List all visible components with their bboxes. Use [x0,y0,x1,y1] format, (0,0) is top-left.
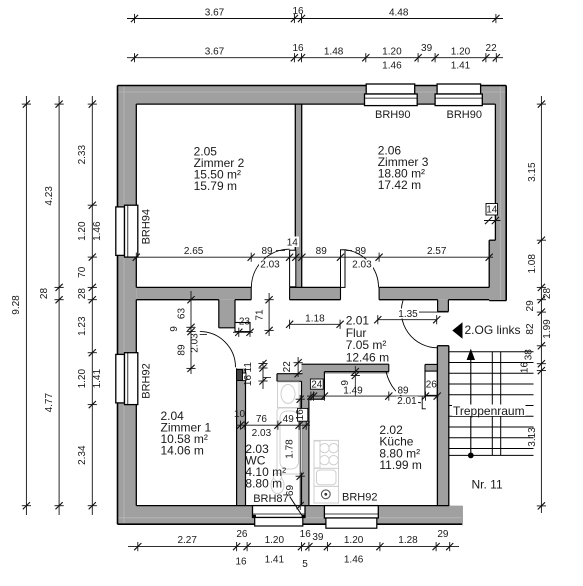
dim 16/11 mini (WC door) [262,361,264,389]
svg-text:1.23: 1.23 [77,316,88,336]
svg-text:28: 28 [39,288,50,300]
door Zimmer2: leaf [290,250,296,287]
door Zimmer3: leaf [341,250,346,288]
wall layer line top [118,91,506,93]
svg-text:1.20: 1.20 [382,47,402,58]
svg-text:BRH87: BRH87 [253,493,288,505]
svg-text:4.77: 4.77 [44,393,55,413]
stub foot white box with 23 dim [235,323,250,332]
dim chain right [540,96,542,513]
outline: stair west wall [436,346,438,506]
outline: stair door stub [437,300,439,312]
wall fill: wall WC/Kueche [302,374,309,506]
svg-text:2.34: 2.34 [77,445,88,465]
svg-text:16: 16 [300,529,312,540]
wall fill: Kueche NW corner block [302,372,325,400]
svg-text:89: 89 [355,246,367,257]
outline: door gap jambs middle wall [250,287,252,299]
svg-text:BRH90: BRH90 [375,109,410,121]
wall fill: left outer wall [118,86,137,525]
stair treads [449,351,534,353]
door Zimmer2: swing arc [251,249,289,287]
outline: middle wall top edge segments [136,286,251,288]
dim chain top inner [127,57,503,59]
svg-text:1.41: 1.41 [265,555,285,566]
dim 22 mini (WC top) [297,357,299,377]
door gap Zimmer2 in middle wall [251,287,289,301]
svg-text:1.20: 1.20 [451,47,471,58]
svg-text:1.20: 1.20 [265,535,285,546]
dim chain left 1 (9.28) [25,96,27,515]
svg-text:29: 29 [437,529,449,540]
svg-text:3.67: 3.67 [205,47,225,58]
svg-text:11.99 m: 11.99 m [379,458,421,472]
window BRH92 bottom wall (kitchen) [324,506,378,518]
wall fill: right wall lower step [489,240,506,300]
outline: kitchen door head piece [425,363,437,365]
svg-text:28: 28 [77,288,88,300]
svg-text:22: 22 [282,361,293,373]
WC bathtub [277,408,302,474]
outline: left wall inner edge lower [135,300,137,506]
window BRH87 leader diagonal [290,497,302,516]
outline: building outer top edge [118,85,507,87]
outline: top wall inner edge [136,103,495,105]
svg-text:26: 26 [426,379,438,390]
wall fill: stub left of stair door [438,300,449,312]
stair stringer lines [491,352,493,456]
svg-text:24: 24 [311,380,323,391]
svg-text:4.23: 4.23 [44,186,55,206]
dim 1.78/69 (kitchen west) [299,395,301,510]
dim chain kitchen top (24/1.49/9/89/2.01/26) [307,395,439,397]
outline: Kueche NW block [323,372,325,400]
kitchen stove unit [314,440,339,468]
svg-text:2.03: 2.03 [352,260,372,271]
svg-text:89: 89 [176,344,187,356]
svg-text:22: 22 [486,43,498,54]
wall layer line right [499,86,501,300]
svg-text:38: 38 [524,349,535,361]
svg-text:16: 16 [235,557,247,568]
svg-text:15.79 m: 15.79 m [194,179,237,193]
svg-text:1.20: 1.20 [344,535,364,546]
svg-text:89: 89 [261,246,273,257]
svg-text:14: 14 [287,237,299,248]
svg-text:5: 5 [302,559,308,570]
svg-text:39: 39 [421,43,433,54]
label Treppenraum [452,405,526,417]
svg-text:2.65: 2.65 [184,246,204,257]
svg-text:71: 71 [254,309,265,321]
svg-text:16: 16 [292,43,304,54]
svg-text:Treppenraum: Treppenraum [453,404,525,418]
svg-text:1.18: 1.18 [305,313,325,324]
svg-text:39: 39 [312,532,324,543]
svg-text:2.27: 2.27 [177,535,197,546]
svg-text:89: 89 [397,386,409,397]
kitchen sink unit [314,468,339,486]
svg-text:2.33: 2.33 [77,145,88,165]
svg-text:1.48: 1.48 [324,47,344,58]
svg-text:14.06 m: 14.06 m [161,444,204,458]
svg-text:16: 16 [520,362,531,374]
svg-text:1.41: 1.41 [451,61,471,72]
svg-text:16: 16 [292,6,304,17]
wall fill: bottom outer wall [118,506,463,525]
svg-text:3.13: 3.13 [527,427,538,447]
svg-text:BRH92: BRH92 [141,363,153,398]
outline: WC top wall [277,373,302,375]
dim 1.35 (stair door) [378,319,437,321]
wall Zimmer1/WC top cap [237,370,243,381]
outline: bottom wall outer edge [118,523,463,525]
dim line rooms row (2.65/89/14/89/89/2.57) [130,256,493,258]
wall fill: kitchen door head piece [425,364,437,371]
svg-text:3.67: 3.67 [205,7,225,18]
dim chain left 3 [91,96,93,515]
dim chain WC (10/76/49/16 + 2.03) [236,424,310,426]
dim 1.18 (Flur) [290,323,341,325]
svg-text:BRH94: BRH94 [141,209,153,244]
svg-text:1.99: 1.99 [542,319,553,339]
svg-text:1.41: 1.41 [92,369,103,389]
window BRH90 #2 top wall [437,84,481,94]
svg-text:1.46: 1.46 [344,555,364,566]
svg-text:16: 16 [295,409,306,421]
door to stairwell: swing arc [401,301,437,348]
svg-text:3.15: 3.15 [527,162,538,182]
wall layer line bottom [118,517,462,519]
svg-text:1.28: 1.28 [398,535,418,546]
dim chain bottom [128,546,459,548]
outline: wall Zimmer1/WC faces [236,368,238,505]
svg-text:9: 9 [169,326,180,332]
svg-text:2.03: 2.03 [190,333,201,353]
door Zimmer3: swing arc [345,250,379,288]
svg-text:2.03: 2.03 [260,260,280,271]
svg-text:1.78: 1.78 [285,439,296,459]
dim 14 (right wall notch) [486,204,498,216]
svg-text:2.03: 2.03 [252,428,272,439]
svg-text:28: 28 [542,288,553,300]
svg-text:1.08: 1.08 [527,254,538,274]
outline: wall WC/Kueche faces [301,381,303,505]
outline: bottom wall right end [461,506,463,525]
svg-text:8.80 m: 8.80 m [245,477,282,491]
outline: building outer right edge [505,86,507,301]
dim 71 (stub height) [268,293,270,336]
wall fill: stub wall south of Zimmer2 [219,300,235,328]
outline: left wall inner edge upper [135,104,137,287]
svg-text:49: 49 [283,414,295,425]
svg-text:1.49: 1.49 [343,386,363,397]
wall fill: middle horizontal wall band [136,287,506,299]
svg-text:17.42 m: 17.42 m [378,178,421,192]
outline: SE corner block bottom [489,300,506,302]
wall fill: right outer wall [495,86,506,301]
outline: bottom wall inner edge segments [136,505,252,507]
wall fill: WC top wall [277,374,302,382]
svg-text:11: 11 [243,362,254,373]
outline: Kueche top wall [302,363,389,365]
door gap Zimmer3 in middle wall [341,287,380,301]
svg-text:1.20: 1.20 [77,221,88,241]
svg-text:63: 63 [176,308,187,320]
svg-text:10: 10 [234,409,246,420]
svg-text:16: 16 [243,375,254,387]
kitchen door niche box 26 [425,371,437,395]
window BRH87 bottom wall [253,506,306,518]
svg-text:9.28: 9.28 [11,295,22,315]
wall fill: stair west wall [437,346,448,506]
door Zimmer1: swing arc [200,332,236,368]
dim 23 (stub foot) [233,331,253,333]
window BRH90 #1 top wall [366,84,415,94]
door Kueche: swing arc [386,372,421,403]
svg-text:82: 82 [525,323,536,335]
wall layer line left [123,86,125,524]
svg-text:2.OG links: 2.OG links [465,323,521,337]
wall fill: Kueche top wall [302,364,389,374]
WC washbasin [278,382,300,408]
window BRH94 left wall [116,207,125,256]
svg-text:76: 76 [256,414,268,425]
wall thickness label 16 (WC/kitchen wall) [298,408,308,421]
svg-text:1.20: 1.20 [77,369,88,389]
dim chain top outer (3.67/16/4.48) [127,18,503,20]
svg-text:26: 26 [236,529,248,540]
door Kueche: leaf mark [422,397,426,409]
svg-text:70: 70 [77,266,88,278]
svg-text:Nr. 11: Nr. 11 [472,478,503,492]
svg-text:12.46 m: 12.46 m [346,351,389,365]
wall fill: wall between Zimmer2 and Zimmer3 [295,104,301,287]
svg-text:BRH92: BRH92 [342,491,377,503]
kitchen lower unit with boiler [314,486,339,503]
svg-text:1.46: 1.46 [382,61,402,72]
dim 63/9/89/2.03 (Zimmer1 door) [190,291,192,374]
svg-text:89: 89 [316,246,328,257]
window BRH92 left wall [116,354,125,403]
svg-text:2.57: 2.57 [427,246,447,257]
svg-text:29: 29 [525,300,536,312]
dim chain left 2 (4.23/28/4.77) [58,96,60,515]
outline: right wall step [489,239,495,241]
outline: stub wall south of Zimmer2 [218,300,220,328]
stair walking line with arrow [470,353,472,456]
svg-text:BRH90: BRH90 [447,109,482,121]
svg-text:2.01: 2.01 [397,396,417,407]
svg-text:1.35: 1.35 [398,309,418,320]
wall fill: wall Zimmer1/WC [237,368,246,505]
outline: middle wall bottom edge segments [136,299,219,301]
svg-text:14: 14 [486,205,498,216]
outline: right wall inner edge [494,104,496,240]
svg-text:23: 23 [239,316,251,327]
svg-text:1.46: 1.46 [92,221,103,241]
wall fill: top outer wall [118,86,507,105]
outline: Zimmer2/3 divider wall faces [294,104,296,287]
outline: building outer left edge [117,86,119,525]
svg-text:4.48: 4.48 [389,7,409,18]
WC toilet [271,477,284,494]
